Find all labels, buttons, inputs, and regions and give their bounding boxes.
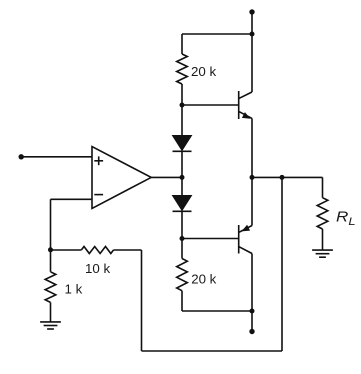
svg-text:10 k: 10 k xyxy=(85,261,110,276)
svg-text:RL: RL xyxy=(336,210,356,228)
svg-text:20 k: 20 k xyxy=(191,64,216,79)
svg-text:20 k: 20 k xyxy=(191,271,216,286)
svg-text:1 k: 1 k xyxy=(65,282,83,297)
